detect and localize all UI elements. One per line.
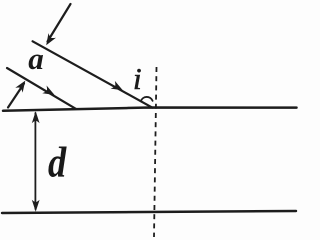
angle i arc xyxy=(141,97,153,101)
slab top surface line xyxy=(3,108,297,111)
lower beam edge ray xyxy=(7,68,76,109)
arrowhead on incident ray xyxy=(111,81,125,94)
normal (dashed line) xyxy=(154,67,157,237)
beam-width dimension arrow (upper, outside) xyxy=(48,4,71,42)
svg-text:a: a xyxy=(28,41,44,76)
svg-text:i: i xyxy=(133,61,142,96)
arrowhead of d dimension (bottom) xyxy=(32,200,40,212)
arrowhead of d dimension (top) xyxy=(32,111,40,123)
thickness dimension line d xyxy=(34,113,36,209)
beam-width dimension arrow (lower, outside) xyxy=(8,84,24,108)
slab bottom surface line xyxy=(2,211,296,213)
arrowhead of lower beam-width arrow xyxy=(15,78,29,92)
svg-text:d: d xyxy=(48,137,67,186)
arrowhead of upper beam-width arrow xyxy=(42,33,56,47)
incident ray (upper beam edge) xyxy=(33,41,153,107)
arrowhead on lower beam ray xyxy=(42,85,56,98)
